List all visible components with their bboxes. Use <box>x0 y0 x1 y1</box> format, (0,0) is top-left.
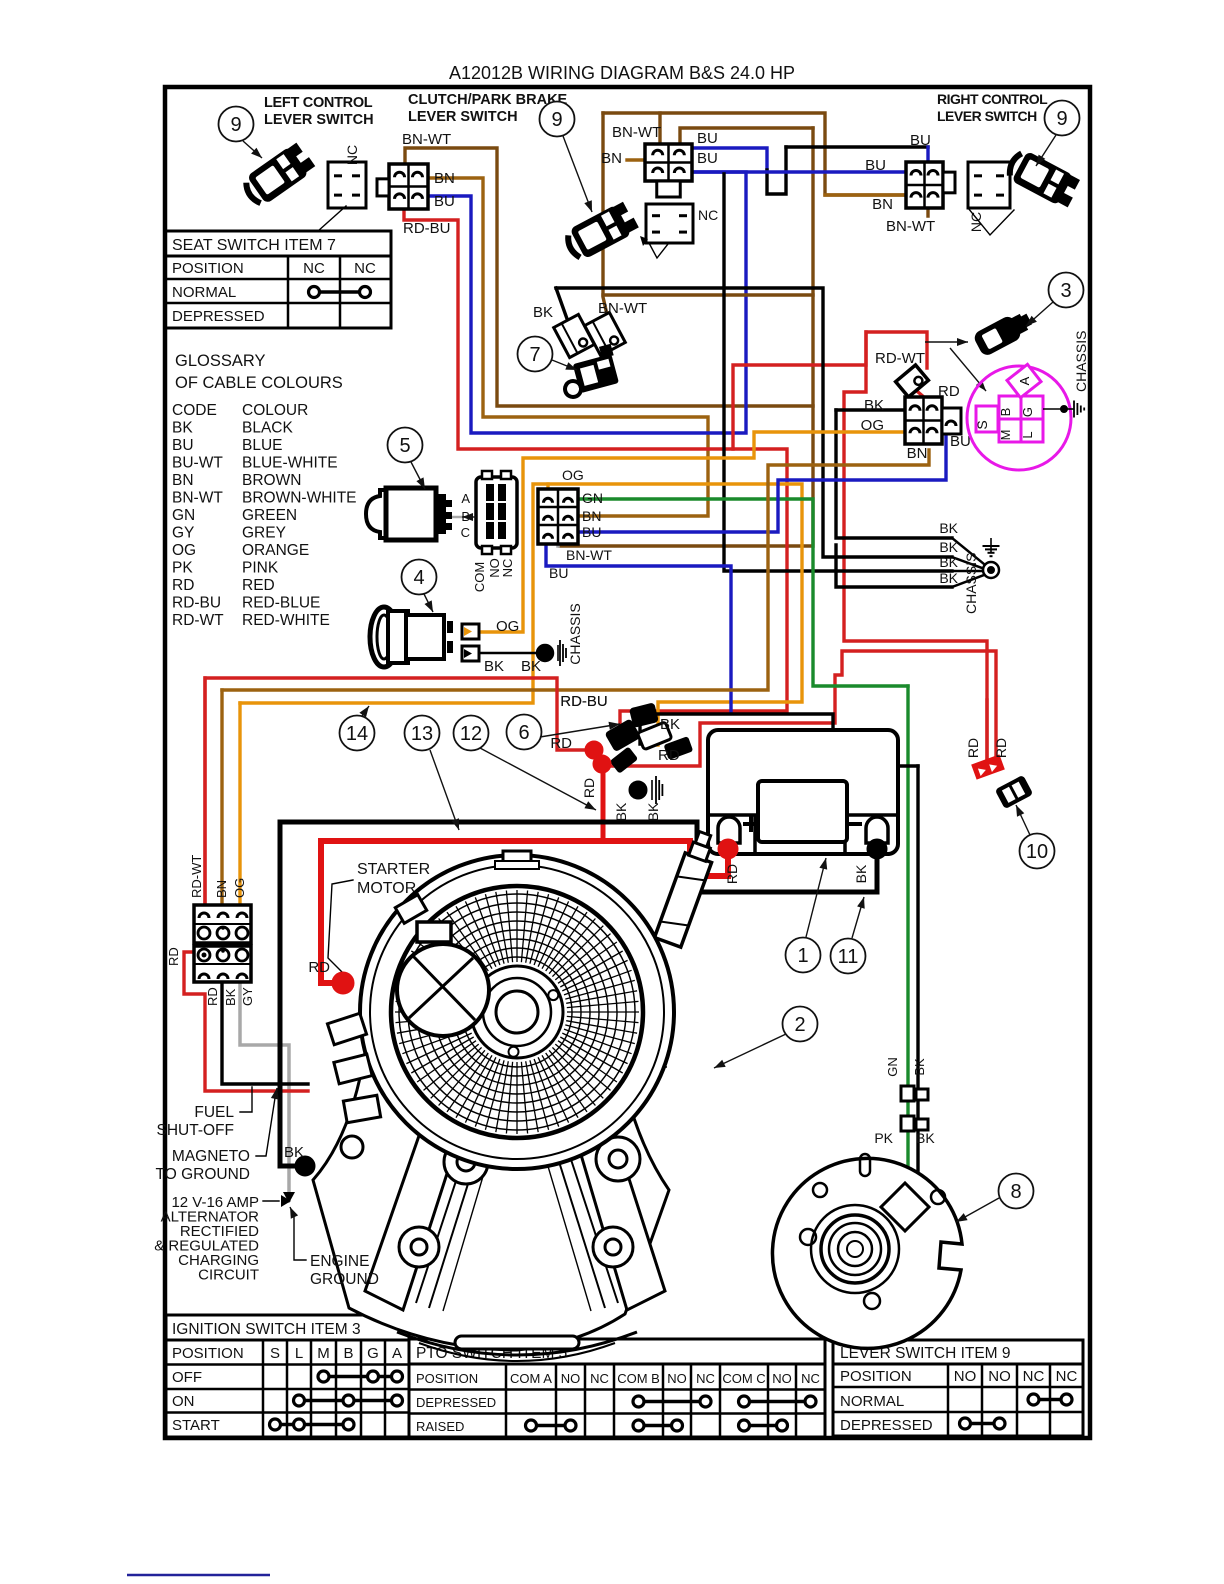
item callout 5 <box>388 428 423 463</box>
svg-text:7: 7 <box>529 344 540 366</box>
svg-text:COM A: COM A <box>510 1371 552 1386</box>
svg-text:RD-WT: RD-WT <box>189 855 204 898</box>
wire BN-WT cross link <box>603 293 813 296</box>
wire BN ignition trunk <box>222 450 929 690</box>
PTO switch item 5 connector <box>476 477 517 548</box>
right control lever switch 4-pin connector <box>906 162 943 208</box>
clutch/park brake NC housing <box>646 204 693 243</box>
wire RD lower stack jog <box>184 952 308 1091</box>
svg-text:BN-WT: BN-WT <box>598 300 647 317</box>
wire BK chassis line 1 <box>836 410 952 538</box>
wire BN right connector lower <box>825 193 914 196</box>
svg-text:OFF: OFF <box>172 1369 202 1386</box>
svg-text:NC: NC <box>801 1371 820 1386</box>
wire OG trunk from stack connector <box>240 484 802 745</box>
wire GY alternator <box>240 972 289 1193</box>
svg-text:RIGHT CONTROL: RIGHT CONTROL <box>937 91 1048 107</box>
svg-text:OG: OG <box>562 467 584 483</box>
svg-text:BN-WT: BN-WT <box>566 547 612 563</box>
svg-text:RD: RD <box>166 947 181 966</box>
chassis ground symbol <box>990 538 992 552</box>
svg-text:GN: GN <box>172 507 195 524</box>
border frame <box>165 87 1090 1438</box>
wire BN left connector trunk <box>428 178 708 516</box>
svg-text:SEAT SWITCH ITEM 7: SEAT SWITCH ITEM 7 <box>172 237 336 254</box>
svg-text:BU: BU <box>697 130 718 147</box>
svg-text:L: L <box>295 1345 303 1362</box>
clutch/park brake 4-pin connector <box>645 144 692 181</box>
svg-text:RED: RED <box>242 577 275 594</box>
wire BN-WT grey stub <box>556 517 560 546</box>
wire RD bullet riser <box>601 770 606 841</box>
svg-text:A: A <box>461 491 470 506</box>
svg-text:ENGINE: ENGINE <box>310 1253 369 1270</box>
solenoid ground stud <box>629 781 647 799</box>
right control lever switch body <box>1004 147 1082 210</box>
wire RD plug verticals <box>985 700 988 758</box>
svg-text:BK: BK <box>939 554 958 570</box>
svg-text:BU: BU <box>910 132 931 149</box>
svg-text:BN: BN <box>601 150 622 167</box>
svg-text:NO: NO <box>772 1371 792 1386</box>
PTO switch body item 5 <box>366 488 452 540</box>
svg-text:CODE: CODE <box>172 402 217 419</box>
key switch ground line <box>1043 408 1064 410</box>
svg-text:BROWN-WHITE: BROWN-WHITE <box>242 490 357 507</box>
svg-text:BU: BU <box>434 193 455 210</box>
solenoid connector cluster <box>604 702 693 773</box>
svg-text:BK: BK <box>613 802 629 821</box>
svg-text:SHUT-OFF: SHUT-OFF <box>157 1122 235 1139</box>
red accessory plug <box>971 754 1005 779</box>
wire BN-WT stub into clutch connector <box>658 113 661 146</box>
OG terminal item 4 <box>462 624 479 639</box>
wire BN-WT vertical x813 to BN-WT block stub <box>560 128 813 546</box>
svg-text:COM: COM <box>472 562 487 592</box>
svg-text:BK: BK <box>484 658 504 675</box>
svg-text:GN: GN <box>885 1057 900 1077</box>
svg-text:START: START <box>172 1417 220 1434</box>
arrow item5 pin B <box>462 516 476 518</box>
pto switch item 5 table <box>409 1339 825 1364</box>
svg-text:RED-WHITE: RED-WHITE <box>242 612 330 629</box>
svg-text:COM C: COM C <box>722 1371 765 1386</box>
svg-text:BU-WT: BU-WT <box>172 455 223 472</box>
starter solenoid <box>654 829 720 947</box>
leader switch to key terminal circle <box>950 348 986 391</box>
wire RD battery feed to red plug <box>604 651 996 766</box>
svg-text:B: B <box>343 1345 353 1362</box>
svg-text:POSITION: POSITION <box>840 1368 912 1385</box>
svg-text:RD: RD <box>724 864 740 884</box>
left control lever switch connector (dashed NC housing) <box>328 162 366 208</box>
svg-text:PINK: PINK <box>242 560 279 577</box>
svg-text:NC: NC <box>354 260 376 277</box>
svg-text:OG: OG <box>172 542 196 559</box>
svg-text:2: 2 <box>794 1014 805 1036</box>
svg-text:RD: RD <box>965 738 981 758</box>
item callout 1 <box>786 938 821 973</box>
svg-text:3: 3 <box>1060 280 1071 302</box>
ignition switch item 3 table <box>166 1315 409 1340</box>
svg-text:BK: BK <box>916 1130 935 1146</box>
svg-text:NC: NC <box>500 559 515 578</box>
svg-text:5: 5 <box>399 435 410 457</box>
svg-text:BN-WT: BN-WT <box>402 131 451 148</box>
item callout 9 <box>219 107 254 142</box>
svg-text:RD: RD <box>205 987 220 1006</box>
svg-text:BK: BK <box>645 802 661 821</box>
svg-text:CHASSIS: CHASSIS <box>963 553 979 614</box>
svg-text:C: C <box>461 525 470 540</box>
wire BK link segment <box>767 147 786 194</box>
wire RD stack trunk to solenoid <box>205 678 592 906</box>
item callout 9 <box>1045 101 1080 136</box>
svg-text:A: A <box>1017 376 1032 385</box>
svg-text:GN: GN <box>582 490 603 506</box>
wire bold BK battery negative loop <box>280 822 877 1166</box>
svg-text:BU: BU <box>697 150 718 167</box>
svg-text:CHASSIS: CHASSIS <box>567 603 583 664</box>
wire BK item 7 drop <box>556 288 571 330</box>
stack connector upper <box>194 905 251 943</box>
svg-text:NC: NC <box>303 260 325 277</box>
svg-text:BN: BN <box>907 445 928 462</box>
item callout 12 <box>454 716 489 751</box>
seat switch item 7 table <box>165 231 391 256</box>
svg-text:DEPRESSED: DEPRESSED <box>172 308 265 325</box>
svg-text:OF CABLE COLOURS: OF CABLE COLOURS <box>175 374 343 392</box>
svg-text:BU: BU <box>549 565 568 581</box>
svg-text:M: M <box>317 1345 330 1362</box>
svg-text:COM B: COM B <box>617 1371 660 1386</box>
svg-text:BN: BN <box>434 170 455 187</box>
key switch chassis ground symbol <box>1064 408 1074 410</box>
svg-text:LEVER SWITCH: LEVER SWITCH <box>408 109 518 125</box>
svg-text:NC: NC <box>1056 1368 1078 1385</box>
wire BU drop to right connector <box>926 147 929 168</box>
svg-text:LEVER SWITCH: LEVER SWITCH <box>264 112 374 128</box>
svg-text:BLUE: BLUE <box>242 437 283 454</box>
item callout 2 <box>783 1007 818 1042</box>
leader seat table <box>318 206 346 231</box>
svg-text:BN: BN <box>872 196 893 213</box>
svg-text:CLUTCH/PARK BRAKE: CLUTCH/PARK BRAKE <box>408 92 568 108</box>
wire RD ignition feed riser <box>733 332 927 449</box>
starter RD stud <box>332 972 354 994</box>
ignition connector 4-pin <box>905 397 942 444</box>
svg-text:14: 14 <box>346 723 368 745</box>
svg-text:RD-WT: RD-WT <box>875 350 925 367</box>
starter motor <box>397 922 489 1036</box>
svg-text:9: 9 <box>551 109 562 131</box>
svg-text:IGNITION SWITCH ITEM 3: IGNITION SWITCH ITEM 3 <box>172 1321 361 1338</box>
svg-text:BK: BK <box>864 397 884 414</box>
item callout 13 <box>405 716 440 751</box>
wire GN through connector to PK <box>906 1101 909 1116</box>
PTO clutch body <box>772 1154 962 1348</box>
wire BU left connector trunk <box>428 172 746 433</box>
svg-text:1: 1 <box>797 945 808 967</box>
svg-text:BN: BN <box>582 508 601 524</box>
wire BK segment right control <box>786 145 928 148</box>
left control lever switch 4-pin connector <box>389 164 428 209</box>
item callout 8 <box>999 1174 1034 1209</box>
svg-text:BK: BK <box>939 539 958 555</box>
svg-text:GROUND: GROUND <box>310 1271 379 1288</box>
right control lever switch NC housing <box>968 162 1010 208</box>
battery positive stud <box>718 839 738 859</box>
wire BN-WT top loop to right connector <box>603 113 928 216</box>
GN BK inline connectors <box>901 1086 914 1101</box>
svg-text:OG: OG <box>861 417 884 434</box>
svg-text:BK: BK <box>223 988 238 1006</box>
svg-text:FUEL: FUEL <box>194 1104 234 1121</box>
svg-text:NC: NC <box>344 145 360 165</box>
wire BK ignition pin stub <box>836 408 905 411</box>
svg-text:BROWN: BROWN <box>242 472 301 489</box>
battery negative terminal <box>866 817 888 843</box>
lever switch item 9 table <box>833 1340 1083 1364</box>
wire BU clutch connector upper <box>684 148 767 170</box>
wire GN PTO block to clutch <box>578 499 908 1086</box>
stack connector lower <box>194 946 251 982</box>
svg-text:CHASSIS: CHASSIS <box>1073 331 1089 392</box>
svg-text:10: 10 <box>1026 841 1048 863</box>
svg-text:BN-WT: BN-WT <box>612 124 661 141</box>
svg-text:NC: NC <box>696 1371 715 1386</box>
svg-text:RD: RD <box>938 383 960 400</box>
PTO wiring block 6 pin <box>538 489 578 544</box>
battery outline <box>708 730 898 854</box>
svg-text:A: A <box>392 1345 402 1362</box>
svg-text:RD-BU: RD-BU <box>560 693 608 710</box>
wire BN stack riser <box>220 690 223 906</box>
svg-text:BK: BK <box>660 716 680 733</box>
wire BN stub clutch connector <box>627 158 645 161</box>
svg-text:RD-BU: RD-BU <box>172 595 221 612</box>
wire BK chassis line 4 <box>836 545 952 587</box>
svg-text:MAGNETO: MAGNETO <box>172 1148 250 1165</box>
svg-text:RD: RD <box>993 738 1009 758</box>
svg-text:BU: BU <box>950 433 971 450</box>
wire BK horizontal to chassis drop <box>556 288 952 557</box>
svg-text:GREEN: GREEN <box>242 507 297 524</box>
wire BN-WT upper horizontal to right area <box>680 128 813 146</box>
chassis ground star point <box>983 562 999 578</box>
svg-text:DEPRESSED: DEPRESSED <box>416 1395 496 1410</box>
wire BK solenoid top <box>640 714 918 766</box>
item 7 fuel solenoid switch <box>556 344 621 399</box>
wire BU PTO block bottom <box>546 534 731 711</box>
svg-text:NORMAL: NORMAL <box>172 284 236 301</box>
item callout 6 <box>507 715 542 750</box>
svg-text:BK: BK <box>912 1058 927 1076</box>
svg-text:ON: ON <box>172 1393 195 1410</box>
battery positive terminal <box>718 817 740 843</box>
svg-text:BN-WT: BN-WT <box>886 218 935 235</box>
battery negative stud <box>867 839 887 859</box>
svg-text:GREY: GREY <box>242 525 286 542</box>
engine left mount details <box>327 895 426 1158</box>
wire OG stub into PTO block <box>546 484 549 497</box>
wire bold RD battery positive cable <box>321 841 728 983</box>
battery label plate <box>758 781 847 842</box>
svg-text:NO: NO <box>988 1368 1011 1385</box>
svg-text:RD: RD <box>550 735 572 752</box>
accessory connector body <box>995 775 1034 809</box>
wire RD-WT jog to ignition connector <box>844 332 987 758</box>
svg-text:LEFT CONTROL: LEFT CONTROL <box>264 95 373 111</box>
engine magneto ground stud <box>295 1156 315 1176</box>
svg-text:BK: BK <box>939 570 958 586</box>
svg-text:PK: PK <box>874 1130 893 1146</box>
wire OG stack riser <box>238 703 241 906</box>
svg-text:12: 12 <box>460 723 482 745</box>
svg-text:S: S <box>974 420 990 429</box>
svg-text:NC: NC <box>698 207 718 223</box>
wire GN long vertical right <box>906 684 909 687</box>
wire BK item4 to chassis <box>479 652 538 655</box>
engine blower housing and flywheel fan <box>360 851 674 1169</box>
svg-text:BK: BK <box>521 658 541 675</box>
solenoid RD bullets <box>585 741 603 759</box>
svg-text:POSITION: POSITION <box>416 1371 478 1386</box>
svg-text:CIRCUIT: CIRCUIT <box>198 1267 259 1284</box>
BK terminal item 4 <box>462 646 479 661</box>
item callout 3 <box>1049 273 1084 308</box>
svg-text:COLOUR: COLOUR <box>242 402 308 419</box>
svg-text:BN: BN <box>172 472 194 489</box>
wire BN-WT to item 7 switch <box>603 113 611 332</box>
svg-text:OG: OG <box>232 878 247 898</box>
key switch terminal boxes <box>976 406 998 432</box>
svg-text:11: 11 <box>838 946 859 968</box>
svg-text:BU: BU <box>865 157 886 174</box>
wire BK clutch <box>916 766 919 1086</box>
svg-text:DEPRESSED: DEPRESSED <box>840 1417 933 1434</box>
wire BU long to right connector <box>692 170 906 173</box>
clutch/park brake switch body <box>562 200 640 263</box>
svg-text:ORANGE: ORANGE <box>242 542 309 559</box>
item callout 14 <box>340 716 375 751</box>
svg-text:PK: PK <box>172 560 193 577</box>
svg-text:LEVER SWITCH: LEVER SWITCH <box>937 108 1037 124</box>
wire RD-WT stack riser <box>203 678 206 906</box>
svg-text:RD: RD <box>658 747 680 764</box>
svg-text:NO: NO <box>561 1371 581 1386</box>
wire RD plug stub <box>918 392 932 404</box>
ignition switch item 3 body <box>972 307 1035 357</box>
headlight switch item 4 body <box>370 607 450 667</box>
svg-text:NORMAL: NORMAL <box>840 1393 904 1410</box>
svg-text:S: S <box>270 1345 280 1362</box>
svg-text:OG: OG <box>496 618 519 635</box>
svg-text:GLOSSARY: GLOSSARY <box>175 352 265 370</box>
svg-text:MOTOR: MOTOR <box>357 880 416 897</box>
wire RD-BU left connector trunk <box>404 207 787 724</box>
svg-text:B: B <box>998 408 1013 417</box>
item callout 7 <box>518 337 553 372</box>
svg-text:RED-BLUE: RED-BLUE <box>242 595 320 612</box>
svg-text:RD-BU: RD-BU <box>403 220 451 237</box>
leader ignition switch arrow <box>925 341 968 343</box>
svg-text:BU: BU <box>172 437 194 454</box>
svg-text:9: 9 <box>1056 108 1067 130</box>
svg-text:RD: RD <box>172 577 194 594</box>
left control lever switch body <box>240 141 317 209</box>
svg-text:8: 8 <box>1010 1181 1021 1203</box>
svg-text:G: G <box>367 1345 379 1362</box>
svg-text:NC: NC <box>590 1371 609 1386</box>
svg-text:BLUE-WHITE: BLUE-WHITE <box>242 455 338 472</box>
svg-text:BK: BK <box>853 864 869 883</box>
svg-text:RD: RD <box>581 778 597 798</box>
wire BU PTO block right to ignition tab <box>578 424 946 532</box>
svg-text:9: 9 <box>230 114 241 136</box>
svg-text:RD-WT: RD-WT <box>172 612 224 629</box>
item 7 connector terminals <box>554 314 595 357</box>
wire BN-WT left loop (left connector to BN-WT trunk) <box>405 148 813 406</box>
footer rule <box>127 1574 270 1577</box>
svg-text:BN: BN <box>214 880 229 898</box>
engine V twin body <box>313 1052 669 1361</box>
RD-WT plug <box>896 365 929 397</box>
svg-text:NC: NC <box>1023 1368 1045 1385</box>
svg-text:GY: GY <box>240 987 255 1006</box>
item callout 10 <box>1020 834 1055 869</box>
item callout 9 <box>540 102 575 137</box>
svg-text:NC: NC <box>968 212 984 232</box>
svg-text:BK: BK <box>284 1144 304 1161</box>
svg-text:BLACK: BLACK <box>242 420 293 437</box>
svg-text:M: M <box>998 430 1013 441</box>
svg-text:POSITION: POSITION <box>172 1345 244 1362</box>
wire BK stack to magneto ground <box>222 972 308 1084</box>
svg-text:POSITION: POSITION <box>172 260 244 277</box>
svg-text:L: L <box>1020 431 1035 438</box>
svg-text:4: 4 <box>413 567 424 589</box>
svg-text:6: 6 <box>518 722 529 744</box>
item callout 4 <box>402 560 437 595</box>
wire OG switch4 to ignition OG pin <box>478 432 916 632</box>
svg-text:BN-WT: BN-WT <box>172 490 223 507</box>
svg-text:G: G <box>1020 407 1035 417</box>
svg-text:13: 13 <box>411 723 433 745</box>
svg-text:GY: GY <box>172 525 194 542</box>
svg-text:NO: NO <box>667 1371 687 1386</box>
svg-text:BK: BK <box>939 520 958 536</box>
svg-text:STARTER: STARTER <box>357 861 430 878</box>
wire BK chassis line 3 <box>724 174 952 571</box>
item callout 11 <box>831 939 866 974</box>
svg-text:TO GROUND: TO GROUND <box>156 1166 250 1183</box>
wire BK converge to chassis ground <box>952 538 984 564</box>
svg-text:A12012B WIRING DIAGRAM B&S 24.: A12012B WIRING DIAGRAM B&S 24.0 HP <box>449 63 795 83</box>
svg-text:RD: RD <box>308 959 330 976</box>
key switch terminal diagram magenta circle <box>967 366 1071 470</box>
svg-text:BU: BU <box>582 524 601 540</box>
svg-text:BK: BK <box>533 304 553 321</box>
svg-text:NO: NO <box>954 1368 977 1385</box>
svg-text:BK: BK <box>172 420 193 437</box>
svg-text:RAISED: RAISED <box>416 1419 464 1434</box>
